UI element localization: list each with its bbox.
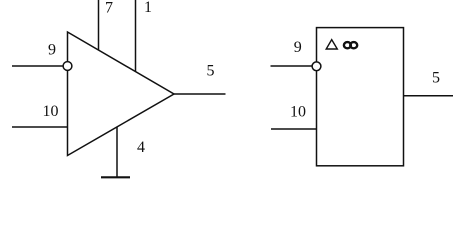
svg-text:10: 10 [43, 103, 59, 120]
wire pin 9 input (left symbol) [12, 65, 63, 67]
svg-text:10: 10 [290, 104, 306, 121]
svg-text:4: 4 [137, 139, 145, 156]
wire pin 5 output (right symbol) [404, 95, 454, 97]
wire pin 10 input (right symbol) [271, 128, 317, 130]
ground [101, 176, 130, 178]
svg-text:9: 9 [48, 42, 56, 59]
inversion bubble on pin 9 (right symbol) [312, 62, 321, 71]
inversion bubble on pin 9 (left symbol) [63, 62, 72, 71]
svg-text:7: 7 [105, 0, 113, 17]
wire pin 1 (left symbol, top) [135, 0, 137, 72]
svg-text:1: 1 [144, 0, 152, 16]
amplifier qualifier symbol (triangle) inside IEC box [326, 40, 337, 49]
svg-text:5: 5 [207, 63, 215, 80]
wire pin 5 output (left symbol) [174, 93, 226, 95]
comparator U1 IEC rectangular symbol [317, 28, 404, 166]
wire pin 4 (left symbol, to ground) [116, 127, 118, 177]
wire pin 7 (left symbol, top supply) [98, 0, 100, 50]
infinity gain symbol inside IEC box [344, 42, 357, 48]
wire pin 9 input (right symbol) [271, 65, 313, 67]
svg-text:9: 9 [294, 39, 302, 56]
svg-text:5: 5 [432, 70, 440, 87]
wire pin 10 input (left symbol) [12, 126, 68, 128]
op-amp U1 triangle symbol [68, 32, 175, 156]
